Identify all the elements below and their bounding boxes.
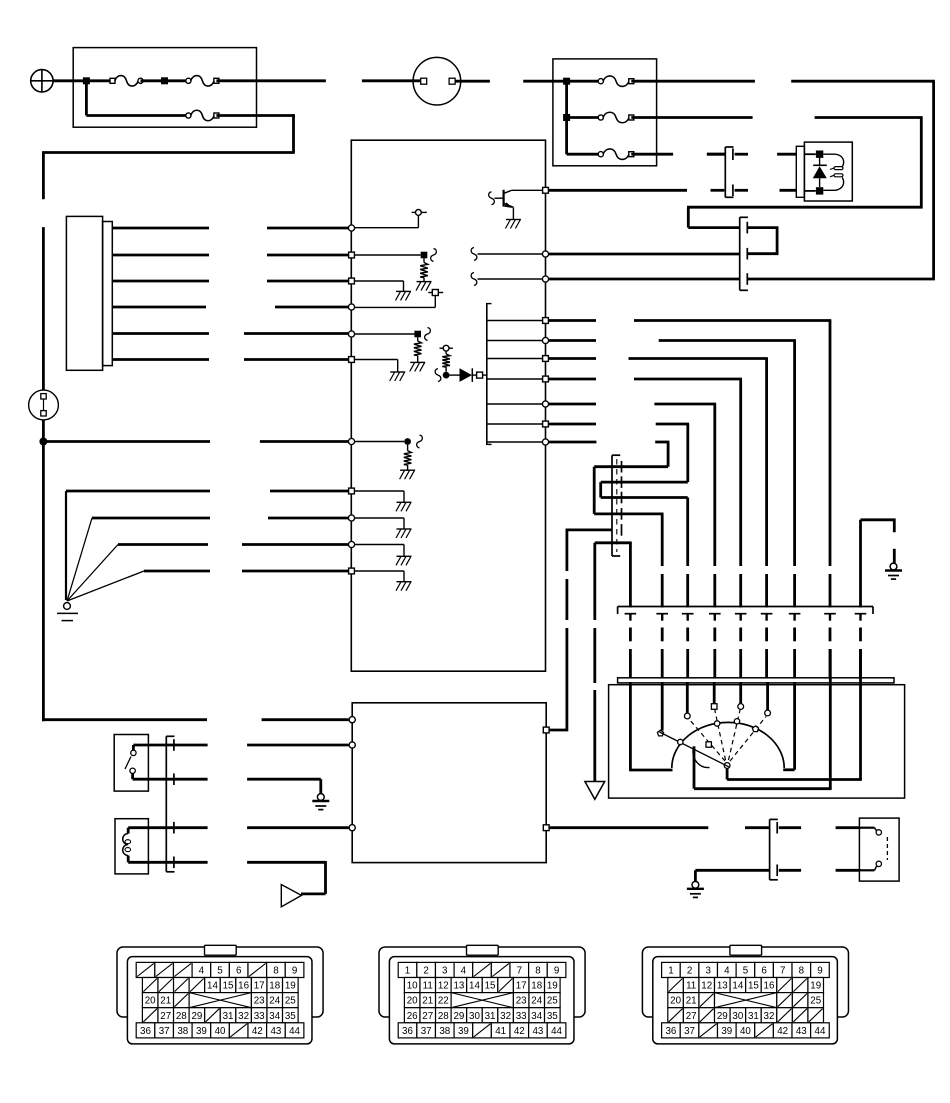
- wire node D to ECM: [43, 440, 210, 443]
- svg-text:35: 35: [547, 1011, 558, 1022]
- wire segment: [686, 628, 689, 642]
- svg-text:20: 20: [407, 996, 418, 1007]
- svg-text:27: 27: [422, 1011, 433, 1022]
- wire row to ECM: [748, 278, 935, 281]
- wire bracket to pin: [488, 403, 545, 405]
- svg-text:8: 8: [535, 966, 541, 977]
- connector C-inline on left wire: [29, 390, 59, 420]
- wire ignition switch right: [456, 80, 490, 83]
- svg-text:15: 15: [485, 981, 496, 992]
- wire stub: [777, 153, 796, 156]
- test point T3: [443, 345, 449, 351]
- cap terminal: [657, 730, 663, 736]
- wire down: [739, 379, 742, 566]
- svg-text:11: 11: [423, 981, 433, 992]
- wire bracket to pin: [488, 340, 545, 342]
- terminal: [477, 372, 483, 378]
- wire segment: [713, 649, 716, 678]
- ECM pin: [348, 438, 354, 444]
- svg-text:15: 15: [748, 981, 759, 992]
- switch blade: [125, 757, 131, 770]
- wire down: [765, 359, 768, 567]
- wire: [417, 215, 419, 227]
- wire to ground: [353, 490, 404, 492]
- ECM #2 box outline: [352, 703, 546, 863]
- distributor outline: [609, 685, 905, 798]
- wire: [353, 280, 404, 282]
- ECM pin: [348, 541, 354, 547]
- wire: [739, 682, 742, 704]
- svg-text:21: 21: [422, 996, 433, 1007]
- gauge assembly outline: [66, 216, 102, 370]
- wire segment: [661, 628, 664, 642]
- wire: [127, 856, 130, 863]
- ECM2 pin: [543, 727, 549, 733]
- wire bracket to pin: [488, 358, 545, 360]
- curl: [471, 248, 477, 261]
- cap terminal: [684, 713, 690, 719]
- svg-text:42: 42: [514, 1026, 525, 1037]
- wire segment: [739, 649, 742, 678]
- fuse box no.1 outline: [73, 48, 256, 128]
- wire stub: [780, 189, 797, 192]
- svg-text:38: 38: [177, 1026, 188, 1037]
- junction node F: [563, 114, 570, 121]
- wire: [478, 278, 545, 280]
- wire segment: [739, 628, 742, 642]
- ECM pin: [348, 304, 354, 310]
- ECM2 pin: [349, 825, 355, 831]
- switch contact: [131, 750, 136, 755]
- ground: [396, 290, 411, 292]
- svg-text:13: 13: [453, 981, 464, 992]
- wire down: [829, 321, 832, 567]
- wire segment: [740, 615, 742, 621]
- svg-text:30: 30: [469, 1011, 480, 1022]
- svg-text:37: 37: [159, 1026, 170, 1037]
- svg-text:20: 20: [145, 996, 156, 1007]
- wire: [118, 543, 208, 546]
- wire: [548, 441, 596, 444]
- ECM2 pin: [349, 717, 355, 723]
- svg-text:23: 23: [254, 996, 265, 1007]
- wire: [686, 682, 689, 713]
- junction: [443, 372, 450, 379]
- wire segment: [859, 615, 861, 621]
- wire down: [629, 543, 632, 608]
- wire segment: [629, 649, 632, 678]
- wire segment: [829, 615, 831, 621]
- wire diagonal: [67, 545, 118, 602]
- connector C102 (2-pin): [724, 147, 726, 197]
- wire gauge to ECM: [112, 280, 209, 283]
- wire segment: [793, 649, 796, 678]
- ECM pin: [348, 515, 354, 521]
- curl: [425, 328, 431, 341]
- ground: [417, 281, 432, 283]
- svg-text:31: 31: [485, 1011, 496, 1022]
- svg-text:2: 2: [423, 966, 428, 977]
- wire stub: [735, 189, 748, 192]
- wire: [548, 423, 596, 426]
- wire down: [319, 779, 322, 794]
- connector pin row 3: [142, 993, 158, 1008]
- svg-text:39: 39: [721, 1026, 732, 1037]
- wire: [66, 490, 210, 493]
- wire: [165, 79, 189, 82]
- wire: [127, 828, 130, 834]
- svg-text:41: 41: [495, 1026, 506, 1037]
- svg-text:23: 23: [516, 996, 527, 1007]
- svg-text:13: 13: [717, 981, 728, 992]
- wire down: [713, 404, 716, 566]
- wire: [550, 826, 709, 829]
- wire segment: [661, 649, 664, 678]
- svg-text:25: 25: [810, 996, 821, 1007]
- wire: [353, 359, 398, 361]
- connector housing inner: [389, 957, 574, 1044]
- connector bar C105: [165, 736, 167, 872]
- wire bus down: [85, 81, 88, 116]
- ground: [397, 555, 412, 557]
- wire segment: [793, 628, 796, 642]
- svg-text:5: 5: [217, 966, 223, 977]
- dashed spark path: [729, 710, 741, 760]
- wire bracket to pin: [488, 378, 545, 380]
- ECM pin: [543, 356, 549, 362]
- svg-text:15: 15: [223, 981, 234, 992]
- ECM pin: [542, 439, 548, 445]
- connector pin row 2: [142, 978, 158, 993]
- wire segment: [859, 649, 862, 678]
- switch link dashed: [886, 837, 888, 860]
- wire down: [694, 870, 697, 881]
- wire fuse F2 to ignition switch: [216, 79, 326, 82]
- svg-text:32: 32: [238, 1011, 249, 1022]
- wire down: [686, 498, 689, 567]
- svg-text:27: 27: [686, 1011, 697, 1022]
- curl: [431, 249, 437, 262]
- wire down: [667, 442, 670, 467]
- connector pin row 4: [668, 1008, 684, 1023]
- svg-text:29: 29: [453, 1011, 464, 1022]
- resistor R4: [407, 445, 409, 451]
- connector pin row 4: [142, 1008, 158, 1023]
- svg-text:9: 9: [817, 966, 822, 977]
- ECM pin: [349, 278, 355, 284]
- wire segment: [829, 628, 832, 642]
- rotor arm: [660, 732, 729, 767]
- wire to ground: [353, 544, 404, 546]
- coil symbol: [123, 834, 128, 856]
- svg-text:16: 16: [238, 981, 249, 992]
- wire ECM2 to C103: [550, 628, 567, 730]
- svg-text:16: 16: [764, 981, 775, 992]
- ECM pin: [543, 318, 549, 324]
- ECM pin: [542, 276, 548, 282]
- wire fuse F5 right: [631, 116, 752, 119]
- connector tab: [205, 945, 237, 955]
- connector bar C101: [739, 217, 741, 290]
- svg-text:1: 1: [405, 966, 410, 977]
- ECM2 pin: [349, 742, 355, 748]
- ECM pin: [349, 357, 355, 363]
- svg-text:3: 3: [442, 966, 448, 977]
- connector pin row 2: [404, 978, 420, 993]
- wire: [695, 869, 769, 872]
- wire gauge to ECM: [112, 227, 209, 230]
- svg-text:36: 36: [665, 1026, 676, 1037]
- svg-text:17: 17: [254, 981, 265, 992]
- svg-text:12: 12: [701, 981, 712, 992]
- wire hook to ground: [859, 520, 862, 608]
- rotor contact: [724, 763, 730, 769]
- wire gauge to ECM: [112, 254, 209, 257]
- junction node B: [161, 77, 168, 84]
- wire: [131, 774, 134, 780]
- wire right: [601, 496, 688, 499]
- arc terminal: [714, 721, 719, 726]
- cap terminal: [765, 710, 771, 716]
- svg-text:14: 14: [207, 981, 218, 992]
- wire left vertical upper: [42, 153, 45, 200]
- wire rotor to out: [726, 768, 729, 779]
- svg-text:44: 44: [815, 1026, 826, 1037]
- connector tab: [730, 945, 762, 955]
- cap terminal: [738, 704, 744, 710]
- wire: [595, 541, 632, 544]
- svg-text:43: 43: [270, 1026, 281, 1037]
- wire gauge to ECM: [112, 358, 209, 361]
- svg-text:22: 22: [438, 996, 449, 1007]
- wire left: [687, 206, 923, 209]
- connector pin row 3: [404, 993, 420, 1008]
- clutch switch box: [859, 818, 899, 881]
- svg-text:6: 6: [761, 966, 767, 977]
- svg-text:9: 9: [554, 966, 559, 977]
- svg-text:20: 20: [670, 996, 681, 1007]
- wire left vertical: [42, 227, 45, 390]
- ground G1: [64, 603, 71, 610]
- curl at Q1 base: [489, 192, 495, 205]
- wire segment: [765, 615, 767, 621]
- ground: [390, 371, 405, 373]
- svg-text:33: 33: [254, 1011, 265, 1022]
- wire: [567, 80, 601, 83]
- svg-text:7: 7: [780, 966, 785, 977]
- connector housing outer: [117, 947, 323, 1017]
- wire down: [661, 514, 664, 566]
- wire: [353, 441, 404, 443]
- wire segment: [686, 649, 689, 678]
- fuse F5: [598, 115, 603, 120]
- ground triangle G2: [585, 782, 605, 800]
- svg-text:4: 4: [724, 966, 730, 977]
- transistor Q1: [503, 190, 505, 207]
- wire down: [793, 341, 796, 567]
- wire down: [324, 861, 327, 894]
- svg-text:4: 4: [461, 966, 467, 977]
- svg-text:1: 1: [668, 966, 673, 977]
- wire: [713, 682, 716, 704]
- test point T1: [416, 210, 422, 216]
- jumper loop wire: [748, 228, 777, 254]
- wire gauge to ECM: [112, 332, 209, 335]
- connector housing inner: [653, 957, 838, 1044]
- dashed spark path: [730, 717, 766, 762]
- connector pin row 5: [662, 1023, 681, 1038]
- wire: [661, 682, 664, 731]
- wire coil to out: [693, 746, 696, 788]
- wire ECM output: [548, 189, 687, 192]
- ECM pin: [542, 251, 548, 257]
- svg-text:7: 7: [517, 966, 522, 977]
- svg-text:21: 21: [686, 996, 697, 1007]
- ground: [397, 581, 412, 583]
- resistor R2: [417, 337, 419, 341]
- connector housing outer: [379, 947, 585, 1017]
- wire segment: [859, 628, 862, 642]
- svg-text:19: 19: [285, 981, 296, 992]
- arc terminal: [752, 726, 758, 732]
- svg-text:37: 37: [421, 1026, 432, 1037]
- wire left: [594, 465, 668, 468]
- junction: [414, 331, 421, 338]
- wire left vertical lower: [42, 420, 45, 721]
- switch contact: [876, 830, 881, 835]
- wire segment: [765, 649, 768, 678]
- svg-text:9: 9: [292, 966, 297, 977]
- ECM pin: [348, 225, 354, 231]
- svg-text:40: 40: [215, 1026, 226, 1037]
- connector pin row 5: [136, 1023, 155, 1038]
- svg-text:24: 24: [269, 996, 280, 1007]
- svg-text:39: 39: [196, 1026, 207, 1037]
- wire segment: [713, 628, 716, 642]
- svg-text:31: 31: [748, 1011, 759, 1022]
- svg-text:14: 14: [469, 981, 480, 992]
- wire: [548, 339, 596, 342]
- wire diagonal: [67, 571, 144, 601]
- wire segment: [829, 649, 832, 678]
- svg-text:36: 36: [140, 1026, 151, 1037]
- wire C103 to ground path: [593, 543, 596, 620]
- svg-text:6: 6: [236, 966, 242, 977]
- connector bar C104: [618, 606, 873, 608]
- svg-text:32: 32: [764, 1011, 775, 1022]
- wire: [132, 745, 135, 750]
- ground: [400, 469, 415, 471]
- distributor cap arc: [672, 722, 784, 768]
- svg-text:11: 11: [686, 981, 696, 992]
- svg-text:18: 18: [531, 981, 542, 992]
- diode D1: [450, 374, 460, 376]
- svg-text:14: 14: [732, 981, 743, 992]
- wire: [92, 517, 210, 520]
- ground G5: [692, 881, 699, 888]
- wire segment: [793, 615, 795, 621]
- wire stub: [707, 153, 724, 156]
- svg-text:19: 19: [810, 981, 821, 992]
- wire: [859, 827, 874, 829]
- cap terminal: [711, 704, 717, 710]
- ECM pin: [543, 187, 549, 193]
- combination switch box: [114, 735, 148, 792]
- svg-text:19: 19: [547, 981, 558, 992]
- wire right: [594, 513, 663, 516]
- wire segment: [714, 615, 716, 621]
- svg-text:30: 30: [732, 1011, 743, 1022]
- junction: [404, 438, 411, 445]
- wire left: [601, 481, 688, 484]
- fuse F1: [110, 78, 115, 83]
- wire: [548, 357, 596, 360]
- svg-text:17: 17: [516, 981, 527, 992]
- wire segment: [629, 628, 632, 642]
- ECM pin: [543, 376, 549, 382]
- connector pin row 5: [398, 1023, 417, 1038]
- connector pin row 2: [668, 978, 684, 993]
- resistor R1: [423, 258, 425, 262]
- connector bar C106: [769, 819, 771, 879]
- wire: [548, 403, 596, 406]
- wire fuse F6 right: [631, 153, 673, 156]
- connector housing outer: [642, 947, 848, 1017]
- ECM pin: [348, 331, 354, 337]
- svg-text:3: 3: [705, 966, 711, 977]
- arc terminal: [706, 742, 711, 747]
- wire: [434, 296, 436, 308]
- wire segment: [629, 615, 631, 621]
- svg-text:12: 12: [438, 981, 449, 992]
- svg-text:8: 8: [799, 966, 805, 977]
- wire fuse F4 right: [631, 80, 755, 83]
- wire: [567, 116, 601, 119]
- ground G3: [890, 563, 897, 570]
- wire: [548, 378, 596, 381]
- buzzer box: [115, 819, 148, 874]
- svg-text:25: 25: [547, 996, 558, 1007]
- svg-text:29: 29: [717, 1011, 728, 1022]
- svg-text:40: 40: [740, 1026, 751, 1037]
- svg-text:5: 5: [743, 966, 749, 977]
- wire: [478, 253, 545, 255]
- fuse F4: [598, 79, 603, 84]
- wire bracket to pin: [488, 423, 545, 425]
- wire stub: [735, 153, 748, 156]
- svg-text:34: 34: [269, 1011, 280, 1022]
- wire to ground: [353, 517, 404, 519]
- svg-text:36: 36: [402, 1026, 413, 1037]
- junction node E: [563, 78, 570, 85]
- curl: [435, 369, 441, 382]
- svg-text:44: 44: [551, 1026, 562, 1037]
- svg-text:8: 8: [273, 966, 279, 977]
- connector pin row 3: [668, 993, 684, 1008]
- connector bar C103: [611, 455, 613, 556]
- wire down: [292, 114, 295, 152]
- ECM pin: [349, 252, 355, 258]
- svg-text:38: 38: [439, 1026, 450, 1037]
- svg-text:10: 10: [407, 981, 418, 992]
- svg-text:18: 18: [269, 981, 280, 992]
- wire down: [687, 207, 690, 227]
- wire: [86, 79, 112, 82]
- junction node A: [83, 77, 90, 84]
- distributor strip: [618, 678, 894, 683]
- ground: [397, 528, 412, 530]
- curl: [471, 273, 477, 286]
